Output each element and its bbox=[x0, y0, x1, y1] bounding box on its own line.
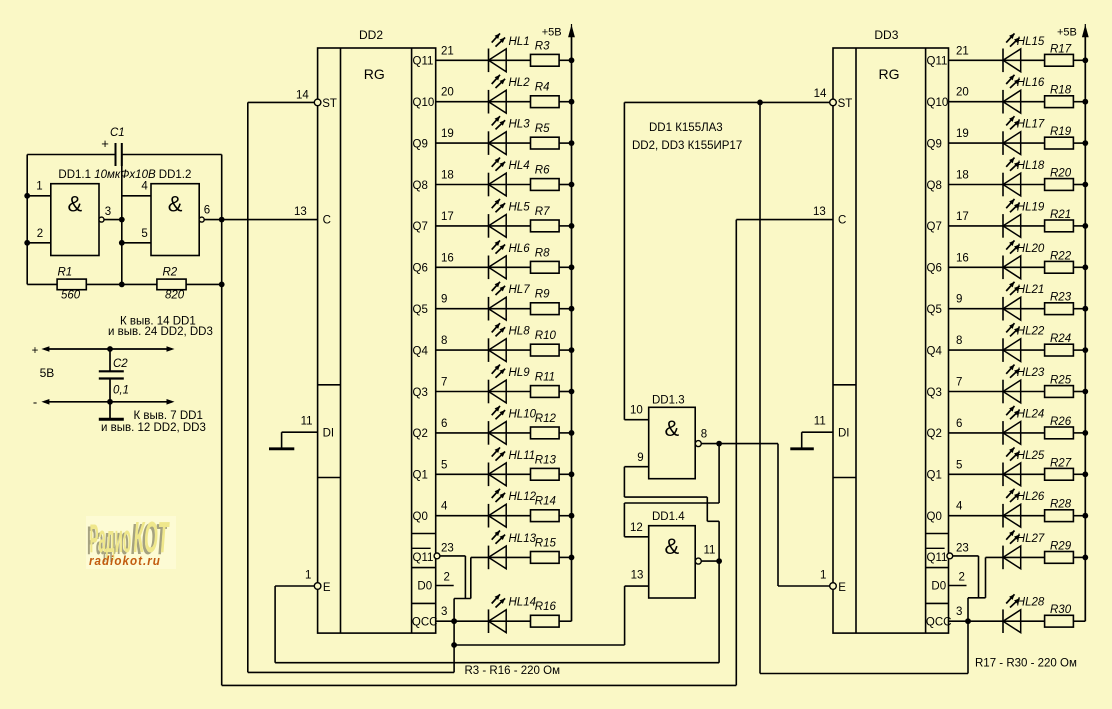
svg-text:R29: R29 bbox=[1050, 540, 1072, 552]
svg-text:20: 20 bbox=[956, 87, 969, 99]
svg-text:Q0: Q0 bbox=[413, 511, 428, 523]
svg-text:Q7: Q7 bbox=[413, 221, 428, 233]
svg-text:R26: R26 bbox=[1050, 416, 1072, 428]
svg-text:R3: R3 bbox=[535, 40, 550, 52]
svg-text:R6: R6 bbox=[535, 165, 550, 177]
svg-text:radiokot.ru: radiokot.ru bbox=[89, 554, 161, 568]
svg-text:4: 4 bbox=[441, 501, 448, 513]
svg-text:1: 1 bbox=[820, 570, 826, 582]
svg-text:Q1: Q1 bbox=[413, 470, 428, 482]
svg-text:DD1.2: DD1.2 bbox=[159, 169, 192, 181]
svg-text:+5В: +5В bbox=[542, 27, 562, 39]
svg-text:Q8: Q8 bbox=[413, 180, 428, 192]
svg-text:Q11: Q11 bbox=[927, 552, 948, 564]
svg-text:DD1.3: DD1.3 bbox=[652, 395, 685, 407]
svg-text:Q4: Q4 bbox=[927, 345, 943, 357]
svg-text:18: 18 bbox=[956, 170, 969, 182]
svg-text:HL3: HL3 bbox=[509, 119, 531, 131]
svg-text:HL21: HL21 bbox=[1017, 284, 1045, 296]
svg-text:&: & bbox=[665, 416, 680, 441]
svg-text:HL25: HL25 bbox=[1017, 450, 1045, 462]
svg-text:E: E bbox=[838, 582, 846, 594]
svg-text:QCC: QCC bbox=[926, 616, 952, 628]
svg-text:19: 19 bbox=[956, 128, 969, 140]
svg-text:13: 13 bbox=[813, 206, 826, 218]
svg-text:HL12: HL12 bbox=[509, 491, 537, 503]
svg-text:9: 9 bbox=[956, 294, 962, 306]
svg-text:19: 19 bbox=[441, 128, 454, 140]
svg-text:Q8: Q8 bbox=[927, 180, 942, 192]
svg-text:Q2: Q2 bbox=[927, 428, 942, 440]
svg-text:2: 2 bbox=[959, 572, 965, 584]
svg-text:DI: DI bbox=[323, 428, 335, 440]
svg-text:16: 16 bbox=[441, 252, 454, 264]
svg-text:Q9: Q9 bbox=[413, 138, 428, 150]
svg-text:R30: R30 bbox=[1050, 604, 1072, 616]
svg-text:HL19: HL19 bbox=[1017, 201, 1045, 213]
svg-text:5: 5 bbox=[141, 228, 147, 240]
svg-text:R11: R11 bbox=[535, 372, 555, 384]
svg-text:3: 3 bbox=[105, 206, 111, 218]
svg-text:R24: R24 bbox=[1050, 333, 1071, 345]
svg-text:К выв. 7 DD1: К выв. 7 DD1 bbox=[134, 410, 203, 422]
svg-text:C1: C1 bbox=[110, 127, 125, 139]
svg-text:HL26: HL26 bbox=[1017, 491, 1045, 503]
svg-text:+5В: +5В bbox=[1057, 27, 1077, 39]
svg-text:18: 18 bbox=[441, 170, 454, 182]
svg-text:HL15: HL15 bbox=[1017, 36, 1045, 48]
svg-text:16: 16 bbox=[956, 252, 969, 264]
svg-text:+: + bbox=[32, 345, 39, 357]
svg-text:Q9: Q9 bbox=[927, 138, 942, 150]
svg-text:DD1.1: DD1.1 bbox=[58, 169, 91, 181]
svg-text:3: 3 bbox=[956, 606, 962, 618]
svg-text:4: 4 bbox=[956, 501, 963, 513]
svg-text:E: E bbox=[323, 582, 331, 594]
svg-text:Q11: Q11 bbox=[927, 56, 948, 68]
svg-text:13: 13 bbox=[631, 570, 644, 582]
svg-text:Q6: Q6 bbox=[413, 263, 428, 275]
svg-text:HL17: HL17 bbox=[1017, 119, 1045, 131]
svg-text:23: 23 bbox=[441, 542, 454, 554]
svg-text:ST: ST bbox=[838, 98, 853, 110]
svg-text:R21: R21 bbox=[1050, 209, 1071, 221]
svg-text:HL18: HL18 bbox=[1017, 160, 1045, 172]
svg-text:7: 7 bbox=[441, 377, 447, 389]
svg-text:и выв. 24 DD2, DD3: и выв. 24 DD2, DD3 bbox=[108, 326, 213, 338]
svg-text:R9: R9 bbox=[535, 289, 550, 301]
svg-text:20: 20 bbox=[441, 87, 454, 99]
svg-text:Q11: Q11 bbox=[413, 552, 434, 564]
svg-text:9: 9 bbox=[441, 294, 447, 306]
svg-text:QCC: QCC bbox=[412, 616, 438, 628]
svg-text:C2: C2 bbox=[113, 358, 128, 370]
svg-text:5В: 5В bbox=[40, 366, 55, 380]
svg-text:R4: R4 bbox=[535, 82, 550, 94]
svg-text:R17: R17 bbox=[1050, 43, 1072, 55]
svg-text:HL27: HL27 bbox=[1017, 533, 1045, 545]
svg-text:HL22: HL22 bbox=[1017, 326, 1045, 338]
svg-text:5: 5 bbox=[441, 459, 447, 471]
svg-text:HL10: HL10 bbox=[509, 408, 537, 420]
svg-text:HL16: HL16 bbox=[1017, 77, 1045, 89]
svg-text:HL20: HL20 bbox=[1017, 243, 1045, 255]
svg-text:1: 1 bbox=[305, 570, 311, 582]
svg-text:R16: R16 bbox=[535, 601, 557, 613]
svg-text:6: 6 bbox=[204, 205, 210, 217]
svg-text:HL5: HL5 bbox=[509, 201, 531, 213]
svg-text:3: 3 bbox=[441, 606, 447, 618]
svg-text:D0: D0 bbox=[417, 581, 432, 593]
svg-text:11: 11 bbox=[814, 416, 826, 428]
svg-text:2: 2 bbox=[37, 228, 43, 240]
svg-text:2: 2 bbox=[444, 572, 450, 584]
svg-text:5: 5 bbox=[956, 459, 962, 471]
svg-text:D0: D0 bbox=[931, 581, 946, 593]
svg-text:HL13: HL13 bbox=[509, 533, 537, 545]
svg-text:Q5: Q5 bbox=[927, 304, 942, 316]
svg-text:R27: R27 bbox=[1050, 457, 1072, 469]
svg-text:R2: R2 bbox=[163, 267, 178, 279]
svg-text:R18: R18 bbox=[1050, 85, 1072, 97]
svg-text:21: 21 bbox=[441, 45, 454, 57]
svg-text:HL8: HL8 bbox=[509, 326, 531, 338]
svg-text:11: 11 bbox=[301, 416, 313, 428]
svg-text:820: 820 bbox=[165, 290, 185, 302]
svg-text:13: 13 bbox=[294, 206, 307, 218]
svg-text:8: 8 bbox=[701, 429, 707, 441]
svg-text:HL11: HL11 bbox=[509, 450, 536, 462]
svg-text:R23: R23 bbox=[1050, 292, 1072, 304]
svg-text:HL6: HL6 bbox=[509, 243, 531, 255]
svg-text:6: 6 bbox=[441, 418, 447, 430]
svg-text:Q4: Q4 bbox=[413, 345, 429, 357]
svg-text:R22: R22 bbox=[1050, 250, 1072, 262]
svg-text:10мкФх10В: 10мкФх10В bbox=[94, 169, 156, 181]
svg-text:21: 21 bbox=[956, 45, 969, 57]
svg-text:R28: R28 bbox=[1050, 499, 1072, 511]
svg-text:R10: R10 bbox=[535, 330, 557, 342]
svg-text:+: + bbox=[101, 136, 109, 151]
svg-text:1: 1 bbox=[36, 181, 42, 193]
svg-text:и выв. 12 DD2, DD3: и выв. 12 DD2, DD3 bbox=[101, 422, 206, 434]
svg-text:R17 - R30 - 220 Ом: R17 - R30 - 220 Ом bbox=[975, 658, 1077, 670]
svg-text:DI: DI bbox=[838, 428, 850, 440]
svg-text:R12: R12 bbox=[535, 413, 557, 425]
svg-text:Q10: Q10 bbox=[927, 97, 949, 109]
svg-text:R19: R19 bbox=[1050, 126, 1072, 138]
svg-text:C: C bbox=[838, 215, 846, 227]
svg-text:C: C bbox=[323, 215, 331, 227]
svg-text:HL14: HL14 bbox=[509, 597, 537, 609]
svg-text:DD3: DD3 bbox=[874, 28, 898, 42]
svg-text:HL7: HL7 bbox=[509, 284, 531, 296]
svg-text:R8: R8 bbox=[535, 247, 550, 259]
svg-text:R3 - R16 - 220 Ом: R3 - R16 - 220 Ом bbox=[465, 665, 561, 677]
svg-text:8: 8 bbox=[441, 335, 447, 347]
svg-text:Q2: Q2 bbox=[413, 428, 428, 440]
svg-text:HL23: HL23 bbox=[1017, 367, 1045, 379]
svg-text:HL2: HL2 bbox=[509, 77, 531, 89]
svg-text:HL4: HL4 bbox=[509, 160, 530, 172]
svg-text:Q7: Q7 bbox=[927, 221, 942, 233]
svg-text:HL9: HL9 bbox=[509, 367, 531, 379]
svg-text:DD1 К155ЛА3: DD1 К155ЛА3 bbox=[649, 122, 723, 134]
svg-text:R13: R13 bbox=[535, 454, 557, 466]
svg-text:HL1: HL1 bbox=[509, 36, 530, 48]
svg-text:9: 9 bbox=[637, 452, 643, 464]
svg-text:23: 23 bbox=[956, 542, 969, 554]
svg-text:HL28: HL28 bbox=[1017, 597, 1045, 609]
svg-text:Q6: Q6 bbox=[927, 263, 942, 275]
svg-text:11: 11 bbox=[704, 545, 716, 557]
svg-text:12: 12 bbox=[630, 522, 643, 534]
svg-text:DD2: DD2 bbox=[359, 28, 383, 42]
svg-text:DD2, DD3 К155ИР17: DD2, DD3 К155ИР17 bbox=[632, 140, 742, 152]
svg-text:&: & bbox=[168, 192, 183, 217]
svg-text:Q0: Q0 bbox=[927, 511, 942, 523]
svg-text:0,1: 0,1 bbox=[113, 385, 129, 397]
svg-text:R5: R5 bbox=[535, 123, 550, 135]
svg-text:560: 560 bbox=[61, 290, 81, 302]
svg-text:17: 17 bbox=[956, 211, 969, 223]
svg-text:4: 4 bbox=[141, 181, 148, 193]
svg-text:HL24: HL24 bbox=[1017, 408, 1045, 420]
svg-text:8: 8 bbox=[956, 335, 962, 347]
svg-text:Q3: Q3 bbox=[927, 387, 942, 399]
svg-text:7: 7 bbox=[956, 377, 962, 389]
svg-text:14: 14 bbox=[814, 88, 827, 100]
svg-text:14: 14 bbox=[296, 90, 309, 102]
svg-text:R14: R14 bbox=[535, 496, 556, 508]
svg-text:6: 6 bbox=[956, 418, 962, 430]
svg-text:DD1.4: DD1.4 bbox=[652, 511, 685, 523]
svg-text:RG: RG bbox=[364, 66, 385, 82]
svg-text:ST: ST bbox=[322, 98, 337, 110]
svg-text:Q1: Q1 bbox=[927, 470, 942, 482]
svg-text:R20: R20 bbox=[1050, 168, 1072, 180]
svg-text:Q5: Q5 bbox=[413, 304, 428, 316]
svg-text:17: 17 bbox=[441, 211, 454, 223]
svg-text:R15: R15 bbox=[535, 537, 557, 549]
svg-text:Q3: Q3 bbox=[413, 387, 428, 399]
svg-text:10: 10 bbox=[630, 405, 643, 417]
svg-text:&: & bbox=[68, 192, 83, 217]
svg-text:Q11: Q11 bbox=[413, 56, 434, 68]
svg-text:R1: R1 bbox=[58, 267, 73, 279]
svg-text:&: & bbox=[665, 534, 680, 559]
svg-text:Q10: Q10 bbox=[413, 97, 435, 109]
svg-text:RG: RG bbox=[879, 66, 900, 82]
svg-text:-: - bbox=[33, 395, 37, 410]
svg-text:R25: R25 bbox=[1050, 375, 1072, 387]
svg-text:R7: R7 bbox=[535, 206, 550, 218]
